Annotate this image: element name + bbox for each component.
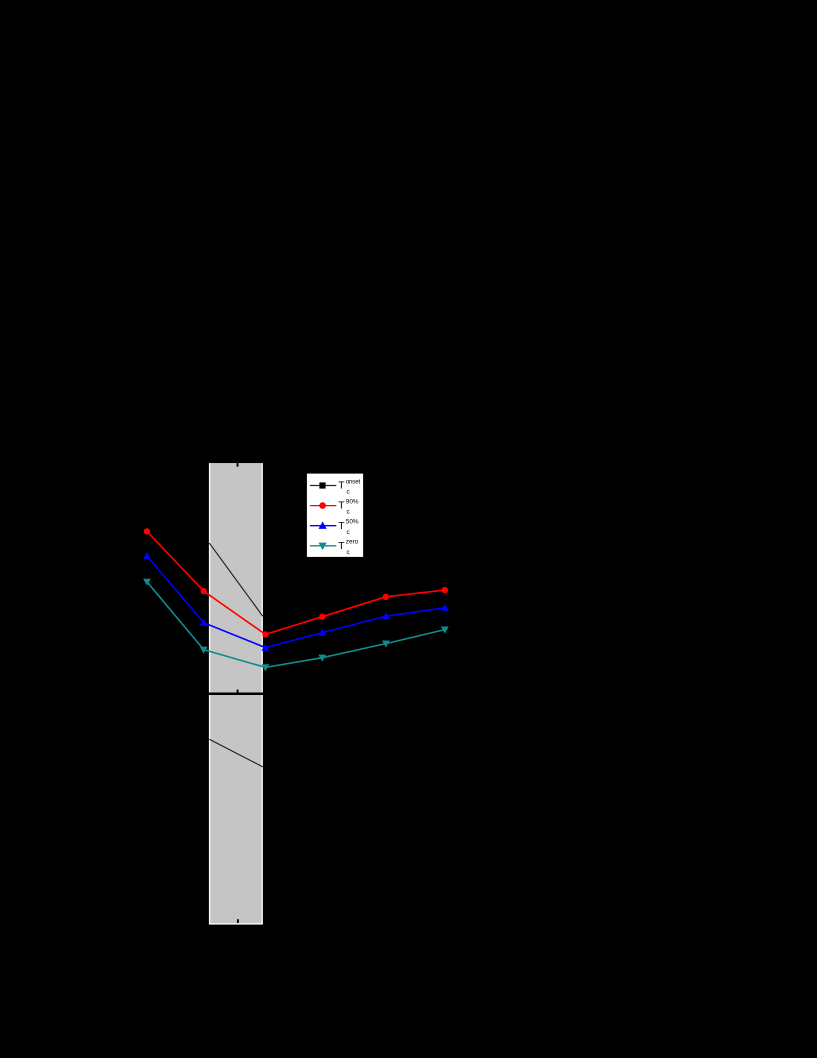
black Tc-onset line segment (top panel, visible across band): [209, 543, 263, 616]
teal Tc-zero series line: [147, 582, 445, 668]
blue Tc-50% series line: [147, 556, 445, 648]
svg-text:onset: onset: [346, 478, 361, 485]
legend entry 4: teal Tc-zero: [310, 539, 359, 556]
legend box: [307, 474, 363, 557]
legend entry 3: blue Tc-50%: [310, 519, 359, 536]
teal Tc-zero markers: [143, 579, 449, 672]
blue Tc-50% markers: [143, 552, 449, 651]
red Tc-90% series line: [147, 531, 445, 634]
svg-text:T: T: [338, 521, 345, 532]
svg-text:90%: 90%: [346, 498, 359, 505]
legend entry 2: red Tc-90%: [310, 498, 359, 515]
svg-text:T: T: [338, 501, 345, 512]
svg-text:T: T: [338, 481, 345, 492]
gray doping band: [210, 463, 263, 924]
top axis tick: [237, 463, 239, 467]
svg-text:T: T: [338, 541, 345, 552]
bottom axis tick: [237, 919, 239, 923]
legend entry 1: black Tc-onset: [310, 478, 361, 495]
top axis spine: [209, 461, 264, 463]
mid axis spine: [209, 693, 264, 696]
black line segment (bottom panel, visible across band): [209, 739, 263, 767]
mid axis tick: [237, 690, 239, 693]
svg-text:zero: zero: [346, 539, 359, 546]
red Tc-90% markers: [144, 528, 448, 637]
svg-text:50%: 50%: [346, 519, 359, 526]
